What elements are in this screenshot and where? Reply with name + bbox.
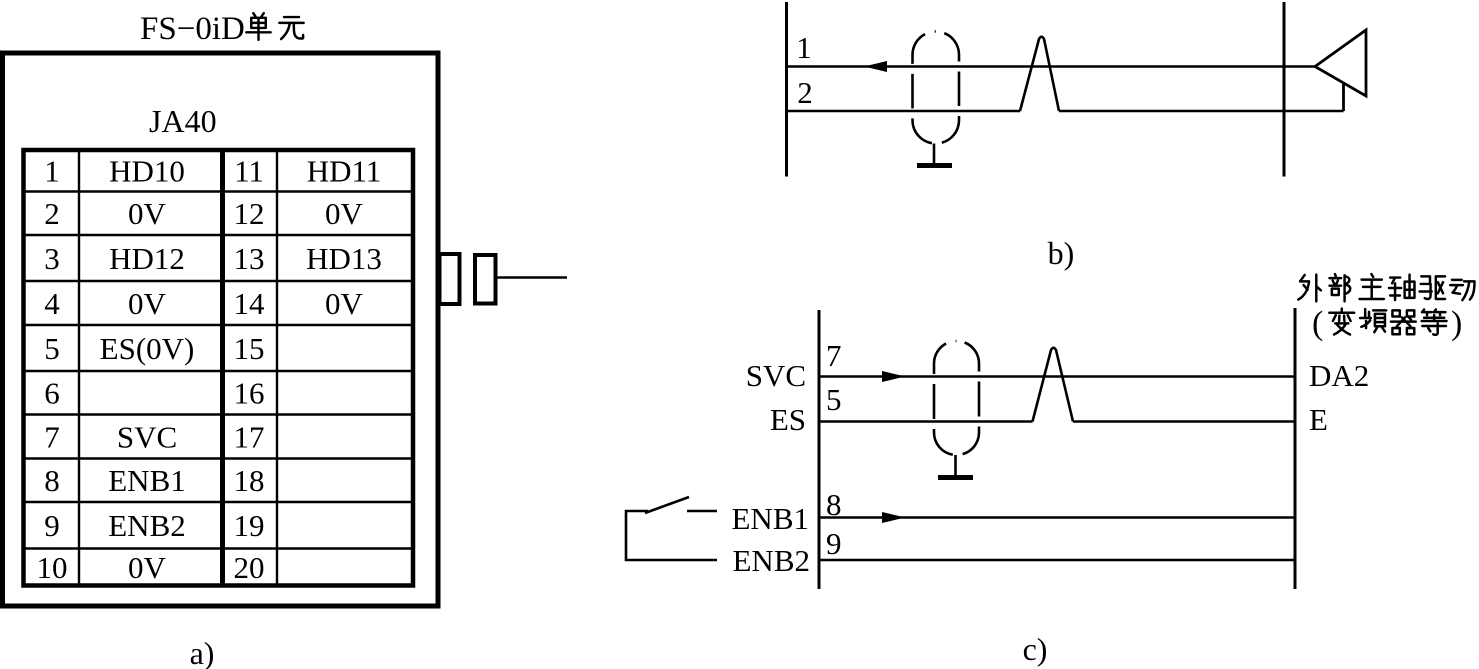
svg-text:HD12: HD12 [109,241,185,276]
svg-text:12: 12 [234,196,265,231]
svg-text:E: E [1309,402,1328,437]
pin 5 row: 5 ES(0V) | 15 (nc) [44,331,264,366]
svg-text:1: 1 [44,154,60,189]
signal arrow on SVC wire [882,371,905,382]
svg-text:ENB2: ENB2 [108,508,186,543]
svg-text:20: 20 [234,550,265,585]
svg-text:14: 14 [234,286,266,321]
pin 3 row: 3 HD12 | 13 HD13 [44,241,382,276]
svg-text:6: 6 [44,376,60,411]
pin 1 row: 1 HD10 | 11 HD11 [44,154,381,189]
signal arrow on wire 1 (b) [864,61,887,72]
FS-0iD unit box [3,53,439,606]
svg-text:10: 10 [37,550,68,585]
wire 1 (b) [787,65,1316,68]
svg-text:19: 19 [234,508,265,543]
enable switch SW [626,497,717,560]
cable wire from connector [497,276,567,279]
wire ENB1 (c) [819,516,1295,519]
svg-text:ENB1: ENB1 [108,463,186,498]
drive-side bus (c) [1294,308,1297,589]
pin 6 row: 6 (nc) | 16 (nc) [44,376,264,411]
wire SVC (c) [819,375,1295,378]
svg-text:DA2: DA2 [1309,358,1369,393]
twisted-pair twist symbol (c) [1033,348,1074,422]
svg-text:16: 16 [234,376,265,411]
svg-text:2: 2 [797,75,813,110]
svg-text:7: 7 [826,338,842,373]
wire 2 riser to amplifier (b) [1342,83,1345,111]
svg-text:9: 9 [44,508,60,543]
svg-text:18: 18 [234,463,265,498]
(变频器等) label [1312,305,1462,342]
cable shield (c) [934,341,979,455]
svg-text:SVC: SVC [746,358,806,393]
twisted-pair twist symbol (b) [1020,37,1059,111]
CNC-side bus (c) [818,310,821,589]
svg-text:0V: 0V [128,286,167,321]
svg-text:1: 1 [796,30,812,65]
svg-text:c): c) [1023,631,1048,667]
svg-text:b): b) [1048,235,1075,271]
wire 2 (b) [787,110,1344,113]
connector plug (unit side) [440,254,460,304]
wire ES (c) [819,420,1295,423]
svg-text:0V: 0V [128,550,167,585]
wire ENB2 (c) [819,559,1295,562]
svg-text:13: 13 [234,241,265,276]
svg-text:0V: 0V [128,196,167,231]
svg-text:15: 15 [234,331,265,366]
svg-text:2: 2 [44,196,60,231]
svg-text:HD10: HD10 [109,154,185,189]
CNC-side bus (b) [785,2,788,177]
svg-text:7: 7 [44,419,60,454]
svg-text:5: 5 [44,331,60,366]
svg-text:9: 9 [826,526,842,561]
drive-side bus (b) [1283,2,1286,177]
external spindle drive label (外部主轴驱动) [1298,274,1474,301]
svg-text:FS−0iD: FS−0iD [140,11,245,47]
svg-text:4: 4 [44,286,60,321]
svg-text:8: 8 [44,463,60,498]
svg-text:): ) [1451,305,1462,342]
svg-text:17: 17 [234,419,265,454]
svg-text:3: 3 [44,241,60,276]
shield ground (b) [917,144,952,166]
svg-text:0V: 0V [325,286,364,321]
amplifier triangle (b) [1315,30,1366,96]
svg-text:ENB1: ENB1 [732,501,810,536]
pin 8 row: 8 ENB1 | 18 (nc) [44,463,264,498]
pin 2 row: 2 0V | 12 0V [44,196,363,231]
pin 4 row: 4 0V | 14 0V [44,286,363,321]
connector plug (cable side) [475,255,496,304]
svg-text:SVC: SVC [117,419,177,454]
svg-text:0V: 0V [325,196,364,231]
svg-text:HD11: HD11 [307,154,382,189]
FS-0iD unit title (FS-0iD 单元) [140,11,304,47]
svg-text:5: 5 [826,382,842,417]
JA40 pin table grid [24,150,414,586]
svg-text:11: 11 [234,154,264,189]
pin 9 row: 9 ENB2 | 19 (nc) [44,508,264,543]
signal arrow on ENB1 wire [882,512,905,523]
svg-text:a): a) [190,635,215,669]
svg-text:JA40: JA40 [149,103,217,139]
svg-text:ES(0V): ES(0V) [100,331,195,366]
shield ground (c) [938,455,973,478]
cable shield (b) [913,32,960,144]
svg-text:ENB2: ENB2 [733,543,811,578]
pin 10 row: 10 0V | 20 (nc) [37,550,265,585]
pin 7 row: 7 SVC | 17 (nc) [44,419,264,454]
svg-text:(: ( [1312,305,1323,342]
svg-text:ES: ES [770,402,806,437]
svg-text:HD13: HD13 [306,241,382,276]
